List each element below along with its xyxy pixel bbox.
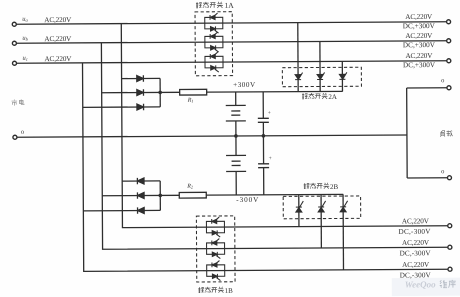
terminal out2 bbox=[447, 39, 451, 43]
wire: 2B drop 3 to bottom line3 bbox=[342, 194, 344, 269]
label 静态开关2A bbox=[302, 93, 328, 99]
SCR pair module 1B-3 bbox=[207, 261, 225, 281]
wire: -300V rail bbox=[206, 193, 343, 196]
thyristor 2A-1 (points down) bbox=[295, 73, 303, 80]
SCR pair module 1B-2 bbox=[207, 239, 225, 259]
capacitor C2 leads bbox=[262, 136, 264, 195]
svg-text:AC,220V: AC,220V bbox=[405, 32, 433, 40]
svg-text:-300V: -300V bbox=[236, 196, 259, 204]
SCR pair module 1A-1 bbox=[205, 13, 223, 33]
wire: diode row 2 bottom (continues to resistor) bbox=[102, 194, 179, 196]
terminal out3 bbox=[447, 59, 451, 63]
terminal u_b bbox=[12, 41, 16, 45]
label 静态开关2B bbox=[304, 183, 330, 189]
svg-text:AC,220V: AC,220V bbox=[405, 13, 433, 21]
diode D6 (points left) bbox=[138, 207, 145, 213]
svg-text:WeeQoo: WeeQoo bbox=[405, 279, 436, 289]
diode D3 (points right) bbox=[137, 104, 144, 110]
svg-text:AC,220V: AC,220V bbox=[44, 35, 72, 43]
wire: diode bank output vertical bbox=[159, 78, 161, 106]
svg-text:AC,220V: AC,220V bbox=[44, 55, 72, 63]
svg-text:R2: R2 bbox=[186, 184, 193, 190]
svg-text:DC,+300V: DC,+300V bbox=[403, 61, 436, 69]
box static switch 2A bbox=[282, 67, 361, 86]
wire: diode bank output vertical bottom bbox=[159, 181, 161, 210]
wire: diode row 1 bbox=[122, 77, 160, 79]
svg-text:o: o bbox=[441, 77, 444, 84]
svg-text:ua: ua bbox=[22, 16, 28, 23]
junction dot diode bank top bbox=[158, 91, 162, 95]
diode D2 (points right) bbox=[137, 89, 144, 95]
SCR pair module 1A-2 bbox=[205, 32, 223, 52]
junction dot capacitor mid bbox=[262, 134, 266, 138]
svg-text:o: o bbox=[441, 168, 444, 175]
wire: diode row 3 bbox=[83, 106, 160, 108]
wire: 2A tap 3 from line3 bbox=[341, 61, 343, 91]
capacitor C2 plates bbox=[258, 164, 269, 168]
svg-text:1B: 1B bbox=[225, 287, 234, 295]
svg-text:2B: 2B bbox=[330, 183, 339, 191]
thyristor 2B-2 (points up) bbox=[318, 201, 326, 212]
wire: diode row 1 bottom bbox=[122, 180, 160, 182]
thyristor 2A-2 (points down) bbox=[317, 72, 325, 79]
box static switch 2B bbox=[283, 196, 361, 219]
svg-text:2A: 2A bbox=[328, 93, 337, 101]
box static switch 1B bbox=[196, 216, 235, 282]
svg-text:o: o bbox=[21, 129, 24, 136]
svg-text:AC,220V: AC,220V bbox=[405, 52, 433, 60]
label 静态开关1B bbox=[198, 287, 224, 293]
svg-text:1A: 1A bbox=[224, 1, 234, 10]
wire: phase line 3 (AC,220V u_c) bbox=[17, 61, 447, 63]
wire: +300V rail bbox=[207, 90, 343, 93]
svg-text:ub: ub bbox=[22, 35, 28, 42]
label 负载 (load) bbox=[440, 130, 452, 136]
diode D4 (points left) bbox=[137, 178, 144, 184]
wire: 2A tap 1 from line1 bbox=[297, 23, 299, 92]
terminal load bottom bbox=[447, 176, 451, 180]
wire: tap from line2 down to 1B line2 elbow bbox=[101, 41, 447, 249]
battery B2 leads bbox=[235, 136, 237, 195]
junction dot diode bank bottom bbox=[158, 194, 162, 198]
thyristor 2A-3 (points down) bbox=[339, 72, 347, 79]
svg-text:R1: R1 bbox=[187, 98, 194, 104]
battery B2 plates bbox=[226, 155, 246, 171]
capacitor C1 leads bbox=[262, 92, 264, 136]
terminal bottom out1 bbox=[448, 224, 452, 228]
diode D1 (points right) bbox=[137, 75, 144, 81]
svg-text:+: + bbox=[269, 156, 272, 162]
resistor R2 bbox=[179, 192, 206, 198]
label 市电 (mains) bbox=[12, 99, 25, 105]
wire: load bracket bbox=[407, 88, 448, 178]
wire: phase line 2 (AC,220V u_b) bbox=[16, 41, 446, 43]
svg-text:DC,-300V: DC,-300V bbox=[400, 249, 432, 257]
svg-text:AC,220V: AC,220V bbox=[402, 217, 430, 225]
svg-text:DC,-300V: DC,-300V bbox=[400, 271, 432, 279]
wire: tap from line3 down to 1B line3 elbow bbox=[83, 61, 448, 272]
watermark background bbox=[392, 278, 460, 296]
wire: phase line 1 (AC,220V u_a) bbox=[16, 22, 446, 24]
wire: neutral line bbox=[17, 135, 407, 137]
svg-text:+300V: +300V bbox=[233, 81, 256, 89]
wire: tap from line1 down to 1B line1 elbow bbox=[121, 22, 447, 228]
svg-text:AC,220V: AC,220V bbox=[402, 261, 430, 269]
battery B1 top leads bbox=[235, 92, 237, 136]
junction dot battery mid bbox=[234, 134, 238, 138]
wire: 2B drop 2 to bottom line2 bbox=[320, 194, 322, 247]
thyristor 2B-1 (points up) bbox=[296, 201, 304, 212]
wire: diode row 3 bottom bbox=[83, 209, 160, 211]
watermark 维库 bbox=[440, 280, 456, 288]
diode D5 (points left) bbox=[137, 192, 144, 198]
SCR pair module 1A-3 bbox=[205, 52, 223, 72]
terminal neutral o bbox=[13, 135, 17, 139]
terminal bottom out2 bbox=[448, 245, 452, 249]
resistor R1 bbox=[180, 89, 207, 95]
SCR pair module 1B-1 bbox=[206, 217, 224, 237]
label 静态开关1A bbox=[196, 2, 223, 8]
svg-text:AC,220V: AC,220V bbox=[44, 16, 72, 24]
terminal u_c bbox=[12, 61, 16, 65]
wire: 2B drop 1 to bottom line1 bbox=[298, 195, 300, 227]
svg-text:DC,+300V: DC,+300V bbox=[403, 22, 436, 30]
box static switch 1A bbox=[195, 12, 233, 76]
terminal out1 bbox=[447, 20, 451, 24]
svg-text:DC,+300V: DC,+300V bbox=[403, 41, 436, 49]
wire: 2A tap 2 from line2 bbox=[319, 41, 321, 91]
wire: diode row 2 (continues to resistor) bbox=[102, 91, 180, 93]
terminal bottom out3 bbox=[448, 267, 452, 271]
thyristor 2B-3 (points up) bbox=[340, 201, 348, 212]
svg-text:DC,-300V: DC,-300V bbox=[398, 228, 431, 236]
capacitor C1 plates bbox=[258, 118, 269, 122]
svg-text:+: + bbox=[268, 110, 271, 116]
svg-text:AC,220V: AC,220V bbox=[402, 239, 430, 247]
terminal u_a bbox=[12, 22, 16, 26]
terminal load top bbox=[447, 86, 451, 90]
svg-text:uc: uc bbox=[22, 55, 27, 62]
battery B1 plates bbox=[226, 105, 246, 121]
